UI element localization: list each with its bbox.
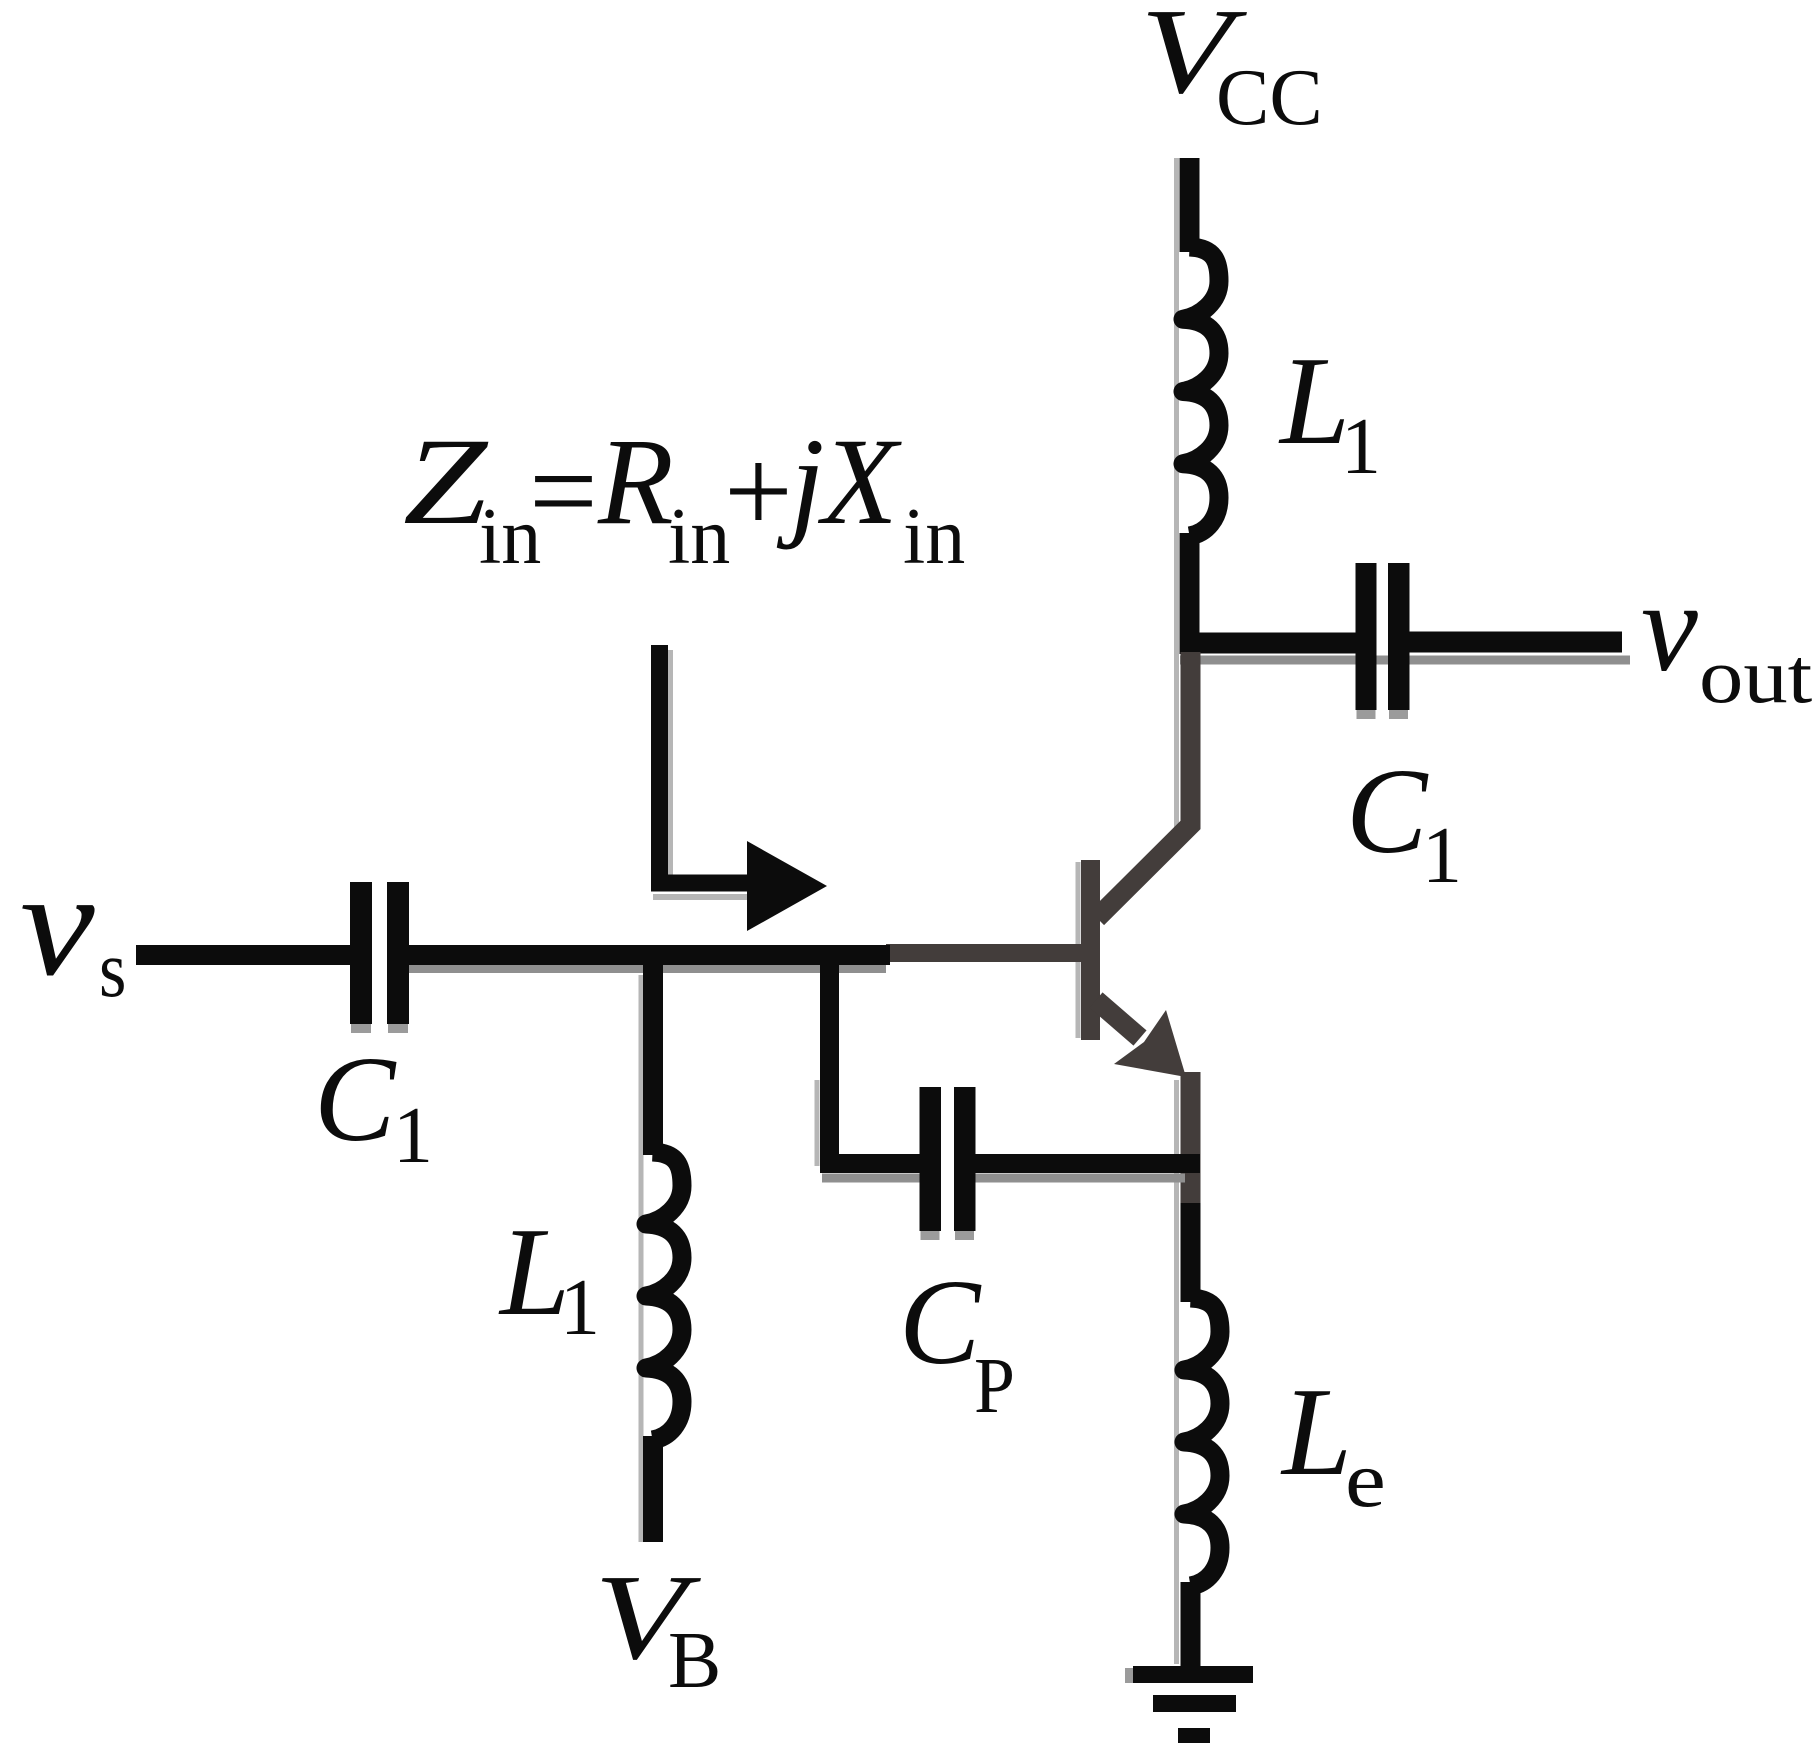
- wire base node down to L1 (bias inductor): [643, 950, 663, 1155]
- label L1 (base bias inductor): [498, 1203, 600, 1352]
- capacitor plate shadows: [351, 710, 1408, 1683]
- svg-text:L: L: [1280, 1363, 1352, 1502]
- capacitor C1 (input): [350, 882, 409, 1024]
- svg-text:P: P: [974, 1341, 1015, 1429]
- wire emitter to Le: [1181, 1203, 1201, 1302]
- inductor L1 (base bias): [646, 1152, 682, 1440]
- capacitor Cp: [920, 1087, 976, 1231]
- label VCC: [1140, 0, 1323, 142]
- label L1 (collector inductor): [1278, 332, 1381, 491]
- wire Cp left horizontal, with shadow: [822, 1174, 920, 1183]
- wire collector node to C1 output, with shadow: [1180, 656, 1630, 665]
- svg-text:X: X: [817, 413, 902, 550]
- svg-text:v: v: [20, 841, 95, 1007]
- svg-text:out: out: [1699, 634, 1812, 720]
- svg-text:Z: Z: [403, 413, 489, 550]
- label C1 (output): [1346, 744, 1462, 900]
- wire VCC to L1 top: [1180, 158, 1200, 252]
- inductor L1 (collector): [1183, 247, 1219, 536]
- wire base node down to Cp: [820, 950, 839, 1173]
- svg-text:1: 1: [393, 1092, 433, 1180]
- emitter diagonal: [1096, 1000, 1140, 1038]
- svg-text:B: B: [668, 1617, 721, 1705]
- capacitor C1 (output): [1356, 563, 1410, 710]
- svg-text:1: 1: [1422, 812, 1462, 900]
- wire C1 output to vout: [1410, 632, 1623, 653]
- label VB: [594, 1550, 721, 1705]
- label Le: [1280, 1363, 1386, 1524]
- svg-text:1: 1: [1341, 403, 1381, 491]
- wire gray collector vertical (node to transistor): [1097, 652, 1191, 918]
- inductor Le (emitter): [1184, 1298, 1220, 1586]
- wire Cp right horizontal to emitter, with shadow: [976, 1174, 1186, 1183]
- ground: [1133, 1666, 1253, 1743]
- svg-text:in: in: [903, 493, 965, 581]
- label C1 (input): [314, 1032, 433, 1180]
- svg-text:=: =: [529, 424, 598, 559]
- label vout: [1641, 556, 1812, 720]
- label Cp: [899, 1255, 1015, 1430]
- wire L1 bottom to collector node: [1180, 533, 1200, 654]
- svg-text:v: v: [1641, 556, 1698, 698]
- svg-text:e: e: [1345, 1435, 1386, 1524]
- wire shadow lines (light gray offsets from source bitmap): [641, 158, 1177, 1664]
- arrow Zin (input impedance pointer): [651, 645, 827, 931]
- svg-text:in: in: [668, 493, 730, 581]
- emitter arrowhead: [1114, 1010, 1186, 1077]
- svg-text:s: s: [99, 926, 126, 1014]
- svg-text:+: +: [724, 424, 793, 559]
- svg-text:C: C: [1346, 744, 1429, 879]
- wire Le to ground: [1181, 1582, 1201, 1670]
- svg-text:C: C: [899, 1255, 982, 1390]
- svg-text:CC: CC: [1216, 54, 1323, 142]
- label vs: [20, 841, 126, 1014]
- label Zin = Rin + jXin: [403, 413, 965, 581]
- svg-text:L: L: [1278, 332, 1350, 471]
- svg-text:R: R: [597, 413, 674, 550]
- base bar: [1081, 860, 1100, 1040]
- wire L1 to VB: [643, 1436, 663, 1542]
- emitter gray vertical: [1181, 1072, 1201, 1203]
- svg-text:1: 1: [560, 1264, 600, 1352]
- wire vs to C1 input: [136, 945, 350, 965]
- wire C1 input to base, with shadow: [409, 965, 886, 973]
- transistor Q1 (NPN, gray): [886, 860, 1191, 1203]
- svg-text:C: C: [314, 1032, 397, 1167]
- base gray lead: [886, 944, 1081, 962]
